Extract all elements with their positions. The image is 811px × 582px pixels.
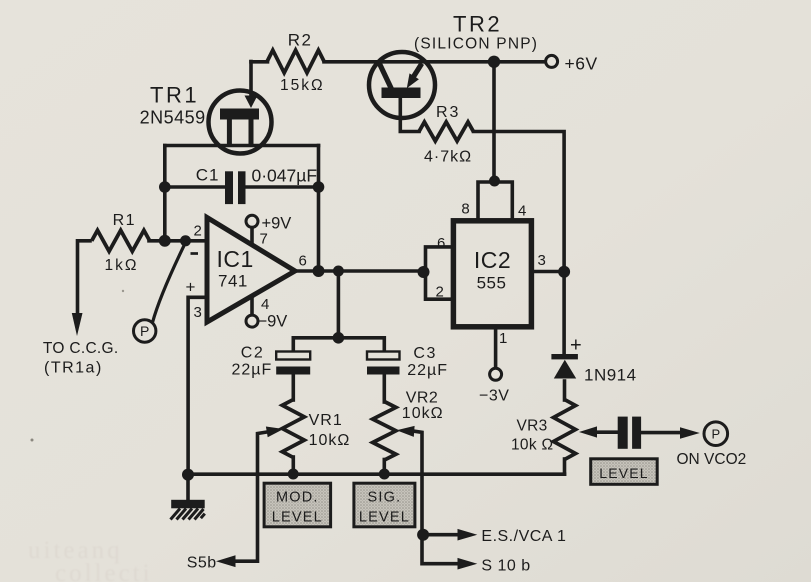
wire R1 to IC1 pin2 — [149, 239, 205, 243]
terminal -3V — [490, 368, 502, 380]
wire ground stub — [186, 474, 190, 500]
arrow TO C.C.G. — [72, 313, 83, 336]
node pins 8-4 — [489, 176, 500, 187]
svg-text:TO C.C.G.: TO C.C.G. — [43, 340, 119, 357]
op-amp IC1 triangle — [207, 218, 295, 323]
wire +6V rail (R2 left corner to +6V terminal) — [251, 60, 268, 64]
resistor R2 — [267, 50, 324, 73]
svg-text:S 10 b: S 10 b — [481, 558, 530, 575]
node ES/VCA1 — [417, 529, 429, 541]
node output b — [333, 266, 344, 277]
wire VR1 to rail — [291, 457, 295, 474]
wire TR1 channel bottom — [165, 144, 319, 148]
svg-text:MOD.: MOD. — [276, 490, 319, 506]
svg-text:R1: R1 — [113, 212, 136, 229]
svg-text:4·7kΩ: 4·7kΩ — [424, 149, 472, 166]
svg-text:4: 4 — [518, 203, 526, 220]
svg-text:−3V: −3V — [479, 388, 509, 405]
label box MOD LEVEL — [264, 483, 331, 527]
svg-text:+6V: +6V — [565, 54, 598, 74]
node pin2 a — [159, 235, 171, 247]
svg-text:2N5459: 2N5459 — [140, 108, 206, 128]
svg-text:IC1: IC1 — [217, 246, 254, 272]
transistor TR1 circle — [209, 91, 272, 154]
diode D1 1N914 cathode bar — [551, 354, 578, 359]
svg-text:R2: R2 — [288, 31, 313, 50]
transistor TR1 source leg — [227, 117, 232, 146]
capacitor C1 plates — [225, 171, 233, 204]
svg-text:0·047µF: 0·047µF — [252, 166, 318, 186]
wire C1 left — [165, 185, 225, 189]
transistor TR2 circle — [369, 52, 435, 118]
potentiometer VR3 zigzag — [554, 400, 576, 460]
transistor TR2 emitter arrowhead — [407, 73, 419, 88]
svg-text:22µF: 22µF — [232, 362, 273, 379]
probe P left circle — [134, 320, 156, 342]
svg-text:8: 8 — [461, 201, 469, 218]
terminal +9V — [246, 215, 258, 227]
wire +6V to IC2 pins8-4 — [492, 62, 496, 182]
wire IC2 pin1 stub — [494, 327, 498, 368]
svg-text:P: P — [140, 323, 149, 339]
svg-text:VR3: VR3 — [517, 418, 548, 435]
wire IC2 pin6/2 bracket — [426, 247, 454, 299]
svg-text:ON VCO2: ON VCO2 — [677, 451, 747, 468]
wire C1 right — [246, 185, 319, 189]
svg-text:P: P — [711, 426, 720, 441]
ground symbol — [171, 500, 205, 509]
potentiometer VR2 zigzag — [373, 402, 396, 461]
svg-text:1N914: 1N914 — [584, 366, 637, 385]
terminal +6V — [546, 55, 558, 67]
svg-text:10kΩ: 10kΩ — [402, 405, 444, 422]
svg-text:555: 555 — [477, 274, 507, 293]
svg-text:E.S./VCA 1: E.S./VCA 1 — [481, 528, 566, 545]
resistor R3 — [419, 122, 473, 141]
node C2C3 branch — [333, 332, 345, 344]
wire feedback loop right vertical — [317, 146, 321, 271]
svg-text:C1: C1 — [196, 166, 220, 185]
svg-text:LEVEL: LEVEL — [359, 509, 410, 525]
wire C2C3 branch horizontal — [293, 338, 384, 352]
svg-text:VR1: VR1 — [309, 412, 343, 429]
faint page show-through marks — [28, 537, 153, 582]
wire IC1 pin3 lead — [188, 297, 206, 471]
svg-text:10k Ω: 10k Ω — [511, 437, 553, 454]
svg-text:6: 6 — [299, 253, 307, 270]
wire VR3 wiper to cap — [595, 430, 618, 434]
wire VR2 wiper to S10b — [415, 431, 458, 563]
svg-text:10kΩ: 10kΩ — [309, 432, 351, 449]
svg-text:+: + — [570, 335, 582, 357]
svg-text:(TR1a): (TR1a) — [44, 360, 103, 377]
label box SIG LEVEL — [354, 483, 415, 527]
node +6V junction — [488, 56, 500, 68]
wire C2 to VR1 — [291, 375, 295, 401]
transistor TR1 drain leg — [249, 117, 254, 146]
wire VR2 to rail — [382, 460, 386, 475]
arrowheads — [72, 313, 700, 570]
svg-text:C2: C2 — [241, 345, 264, 362]
wire IC2 pin3 stub — [532, 270, 565, 274]
wire ground rail — [188, 472, 565, 476]
wire IC2 pins 8-4 bar — [478, 182, 512, 221]
svg-text:1kΩ: 1kΩ — [105, 257, 139, 274]
potentiometer VR1 zigzag — [282, 400, 304, 458]
arrow to VCO2 — [680, 427, 700, 439]
transistor TR2 collector lead — [379, 62, 392, 90]
node pin3 junction — [558, 266, 570, 278]
capacitor C3 (electrolytic) — [367, 352, 400, 360]
node output a — [313, 265, 325, 277]
svg-text:LEVEL: LEVEL — [272, 509, 323, 525]
arrow VR3 wiper — [579, 426, 597, 437]
svg-text:6: 6 — [437, 235, 445, 252]
IC2 555 box — [453, 221, 531, 327]
svg-text:IC2: IC2 — [474, 247, 511, 273]
op-amp IC1 pin4 stub — [250, 296, 254, 315]
wire diode to VR3 — [563, 381, 567, 400]
wire VR1 wiper to S5b — [234, 432, 270, 562]
wire C2C3 branch vertical — [337, 271, 341, 338]
transistor TR1 gate arrowhead — [245, 96, 258, 109]
arrow ES/VCA1 — [458, 529, 478, 541]
wire feedback loop left vertical — [163, 146, 167, 241]
probe P right circle — [704, 422, 728, 446]
node C1 left — [159, 181, 171, 193]
resistor R1 — [92, 230, 150, 251]
node pin2 b — [180, 235, 191, 246]
wire R3 right to vertical — [474, 132, 565, 355]
svg-text:741: 741 — [218, 272, 248, 291]
op-amp IC1 pin7 stub — [250, 227, 254, 245]
svg-text:2: 2 — [194, 223, 202, 240]
node C1 right — [313, 181, 325, 193]
arrow S5b — [216, 555, 236, 567]
label minus — [191, 252, 199, 255]
node VR1 bottom — [288, 469, 299, 480]
wire TR1 gate drop — [249, 62, 253, 100]
svg-text:4: 4 — [261, 296, 269, 313]
svg-text:C3: C3 — [413, 345, 436, 362]
label box LEVEL — [591, 459, 658, 485]
svg-text:R3: R3 — [436, 104, 460, 121]
wire C3 to VR2 — [382, 375, 386, 403]
node ground rail — [182, 469, 194, 481]
svg-text:15kΩ: 15kΩ — [280, 77, 325, 94]
diode D1 1N914 triangle — [554, 360, 576, 379]
transistor TR2 base bar — [382, 88, 421, 99]
svg-text:1: 1 — [499, 330, 507, 347]
arrow S10b — [458, 558, 478, 570]
svg-text:−9V: −9V — [258, 313, 288, 331]
wire TR2 base lead — [400, 96, 419, 132]
svg-text:VR2: VR2 — [406, 389, 439, 406]
capacitor on VR3 wiper line — [618, 417, 628, 449]
svg-text:S5b: S5b — [187, 555, 217, 572]
node VR2 bottom — [379, 469, 390, 480]
arrow VR2 wiper — [397, 426, 415, 437]
transistor TR2 emitter lead — [413, 64, 422, 78]
svg-text:2: 2 — [436, 284, 444, 301]
wire VR3 bottom to rail — [563, 459, 567, 474]
capacitor C2 (electrolytic) — [276, 352, 310, 360]
svg-text:+: + — [186, 278, 196, 297]
svg-text:LEVEL: LEVEL — [599, 465, 649, 481]
wire IC1 output to IC2 — [296, 269, 426, 273]
node IC2 input — [418, 266, 430, 278]
svg-text:(SILICON PNP): (SILICON PNP) — [414, 36, 538, 53]
wire cap to VCO2 arrow — [641, 431, 681, 435]
arrow VR1 wiper — [266, 427, 284, 438]
svg-text:SIG.: SIG. — [367, 490, 401, 506]
svg-text:22µF: 22µF — [407, 362, 448, 379]
terminal -9V — [246, 315, 258, 327]
wire R1 left lead and down arrow stem — [78, 241, 91, 318]
transistor TR1 channel bar — [220, 109, 259, 120]
svg-text:3: 3 — [538, 252, 546, 269]
svg-text:TR2: TR2 — [453, 12, 502, 37]
svg-text:7: 7 — [260, 231, 268, 248]
probe P left curve to pin2 — [153, 243, 186, 323]
svg-text:TR1: TR1 — [150, 83, 199, 108]
svg-text:3: 3 — [194, 304, 202, 321]
wire ES/VCA1 arrow stem — [423, 533, 458, 537]
svg-text:collecti: collecti — [55, 560, 153, 582]
